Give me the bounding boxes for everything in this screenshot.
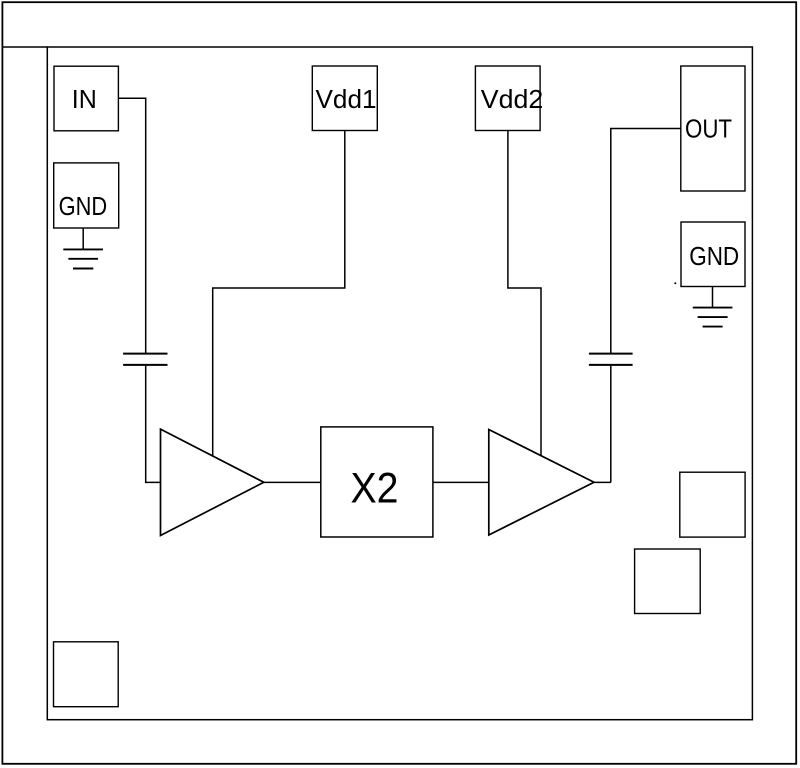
wire C1 to A1 input: [146, 366, 161, 483]
capacitor C1: [123, 354, 167, 365]
wire IN to capacitor C1: [118, 98, 145, 353]
amplifier A1: [161, 429, 264, 535]
wire C2 to A2 output: [610, 366, 612, 483]
pad Vdd2: [475, 66, 543, 131]
pad OUT: [681, 66, 745, 191]
svg-text:GND: GND: [689, 241, 739, 271]
wire X2 to A2 input: [433, 481, 489, 483]
wire A2 output to OUT node: [594, 481, 611, 483]
pad GND right: [681, 222, 745, 287]
ground symbol right: [693, 287, 733, 327]
ground symbol left: [63, 228, 103, 269]
wire OUT to capacitor C2: [611, 129, 681, 354]
multiplier X2: [321, 427, 433, 537]
wire Vdd2 to amplifier A2: [508, 131, 541, 457]
bond pad right lower: [635, 549, 701, 614]
pad IN: [54, 66, 118, 131]
svg-text:Vdd2: Vdd2: [481, 84, 544, 114]
amplifier A2: [489, 430, 594, 536]
svg-text:IN: IN: [72, 84, 97, 114]
wire Vdd1 to amplifier A1: [213, 131, 345, 456]
svg-text:X2: X2: [351, 464, 399, 512]
svg-text:GND: GND: [59, 191, 108, 221]
svg-text:Vdd1: Vdd1: [316, 84, 377, 114]
pad Vdd1: [312, 66, 377, 131]
bond pad bottom-left: [54, 642, 119, 707]
stray dot: [674, 282, 676, 284]
wire A1 output to X2: [264, 481, 321, 483]
bond pad right upper: [680, 472, 745, 537]
pad GND left: [54, 163, 119, 228]
svg-text:OUT: OUT: [685, 114, 732, 144]
capacitor C2: [589, 354, 633, 365]
